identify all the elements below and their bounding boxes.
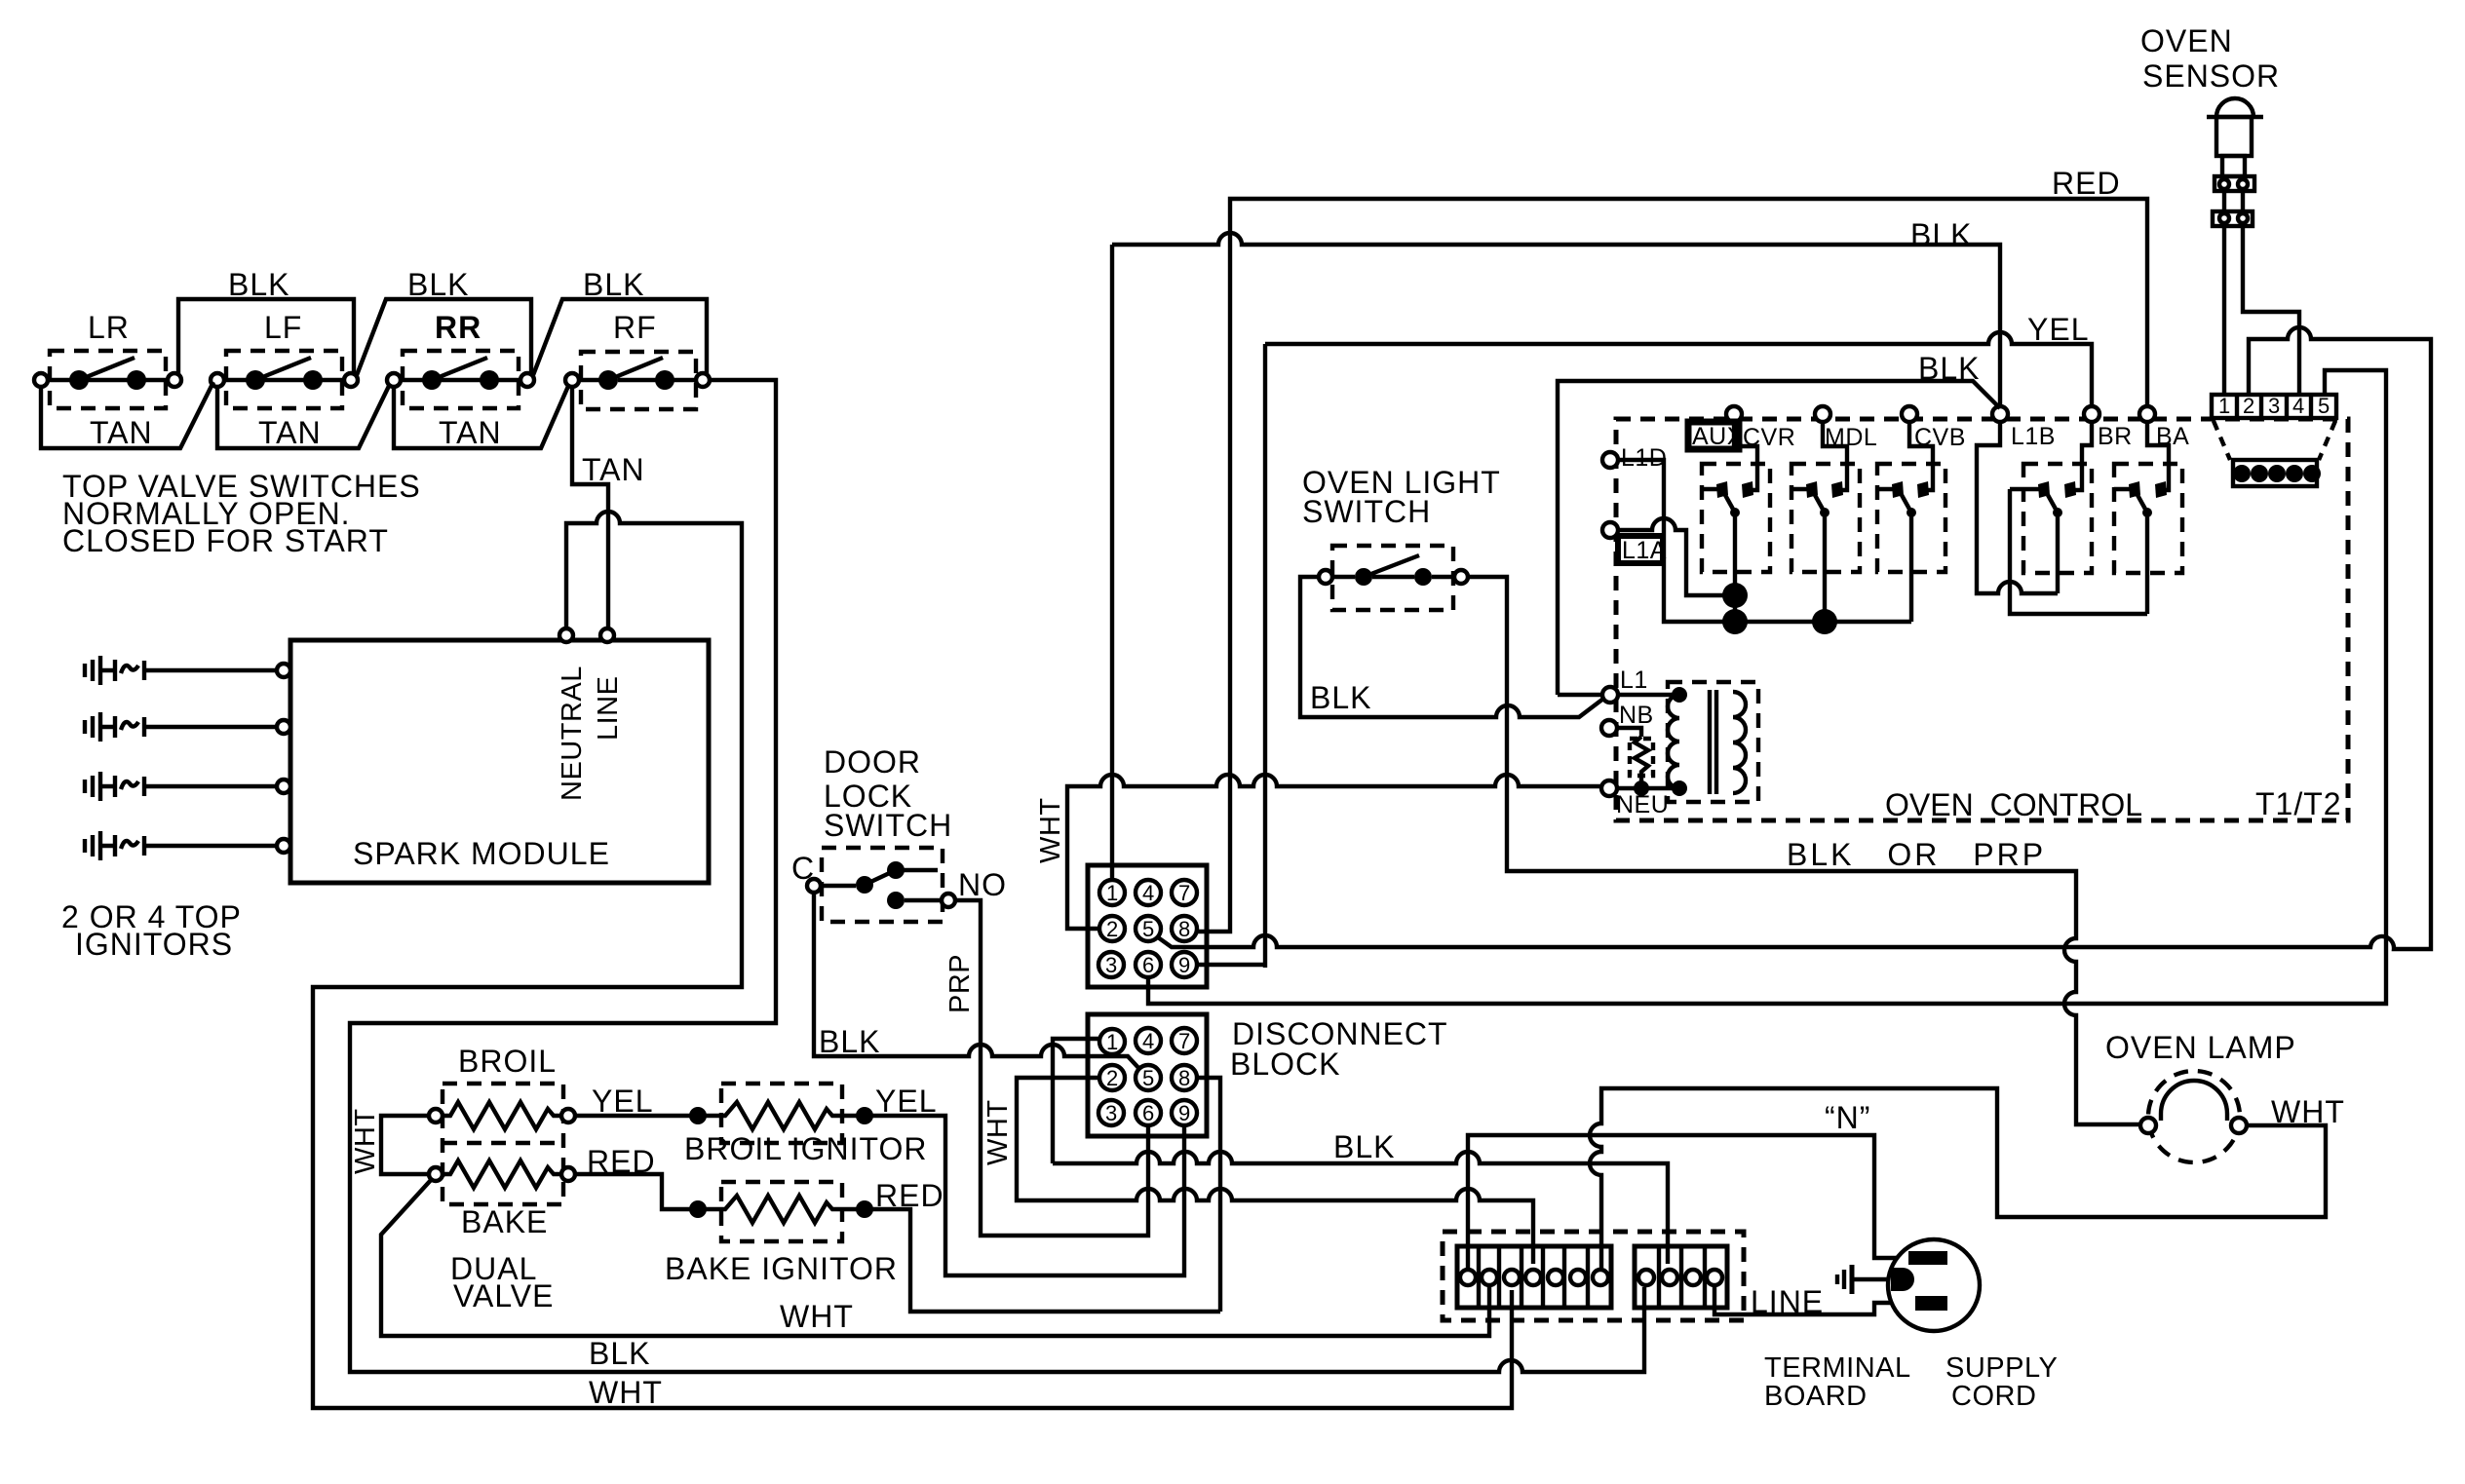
- svg-text:NB: NB: [1619, 702, 1654, 729]
- terminal board dashed box: [1443, 1232, 1744, 1320]
- terminal BA circle: [2139, 406, 2155, 422]
- bake ignitor dashed box: [721, 1182, 842, 1241]
- spark module box: [290, 640, 709, 883]
- svg-text:1: 1: [1106, 1030, 1118, 1054]
- lower block pin 4: [1136, 1028, 1161, 1053]
- wire BLK from door lock C to disconnect pin 5 (humps over PRP and pin1 riser): [814, 893, 1140, 1070]
- svg-text:BLK: BLK: [589, 1336, 650, 1371]
- svg-text:BAKE IGNITOR: BAKE IGNITOR: [665, 1251, 898, 1286]
- sensor connector body (boxes 1-5): [2212, 394, 2336, 418]
- svg-text:SENSOR: SENSOR: [2142, 58, 2280, 94]
- wire BR terminal to relay4 contact: [2075, 422, 2092, 490]
- svg-text:4: 4: [1142, 881, 1154, 905]
- svg-text:RF: RF: [613, 310, 657, 345]
- wire LINE: terminal R4 down and right to supply plug line pin: [1714, 1287, 1915, 1314]
- wire NB to resistor: [1617, 728, 1641, 737]
- svg-text:LF: LF: [264, 310, 302, 345]
- svg-text:L1: L1: [1620, 666, 1648, 694]
- wire BLK#2b oven light left riser up and to L1B riser (diagonal): [1558, 381, 2000, 695]
- svg-text:BLK: BLK: [819, 1024, 880, 1059]
- wire WHT lamp right terminal return to terminal 7 (down, left, up, left, down with bumps over N and BLK runs): [1590, 1088, 2326, 1268]
- svg-text:BROIL: BROIL: [458, 1044, 557, 1079]
- svg-text:YEL: YEL: [592, 1084, 653, 1119]
- lower block pin 1: [1099, 1029, 1125, 1054]
- svg-text:TAN: TAN: [258, 415, 322, 450]
- svg-text:WHT: WHT: [1035, 797, 1066, 863]
- wire relay4 pivot down: [2056, 513, 2060, 593]
- svg-text:WHT: WHT: [589, 1375, 663, 1410]
- ignitor 3: [85, 772, 290, 801]
- transformer secondary coil: [1733, 692, 1746, 793]
- svg-text:YEL: YEL: [875, 1084, 937, 1119]
- wire BLK bridge LR.R to LF.R: [178, 299, 354, 374]
- transformer dashed box: [1668, 682, 1758, 802]
- svg-text:SUPPLY: SUPPLY: [1945, 1352, 2058, 1384]
- svg-text:TAN: TAN: [582, 452, 645, 487]
- svg-text:WHT: WHT: [982, 1099, 1014, 1165]
- svg-text:BLK: BLK: [1910, 217, 1972, 252]
- wire upper pin9 stub to control riser: [1197, 963, 1265, 967]
- svg-text:LR: LR: [88, 310, 130, 345]
- svg-text:4: 4: [1142, 1029, 1154, 1053]
- svg-text:IGNITORS: IGNITORS: [75, 927, 233, 962]
- junction dot primary top: [1672, 687, 1687, 703]
- wire L1D to relay bus: [1618, 460, 1911, 622]
- lower block pin 7: [1172, 1028, 1197, 1053]
- svg-text:2: 2: [1106, 1066, 1118, 1090]
- terminal MDL circle: [1815, 406, 1830, 422]
- lower block pin 3: [1098, 1100, 1124, 1125]
- switch RR (top valve switch, right rear): [387, 310, 534, 408]
- wire WHT valve common to terminal 2 of terminal board: [381, 1179, 1489, 1336]
- relay4 contacts: [2010, 481, 2076, 517]
- wire N: terminal 1 up and right to supply plug neutral: [1468, 1135, 1908, 1268]
- wire BLK bridge RR.R to RF.R (diagonal rise): [533, 299, 707, 375]
- wire relay3 pivot down to bus corner: [1909, 513, 1913, 622]
- svg-text:SWITCH: SWITCH: [824, 808, 952, 843]
- bake valve element (resistor): [429, 1161, 575, 1188]
- wire YEL from main riser corner to BR terminal (hump over L1B riser): [1265, 332, 2092, 406]
- svg-text:L1B: L1B: [2011, 423, 2056, 450]
- relay MDL dashed box: [1791, 464, 1860, 572]
- wire CVR terminal to relay contact: [1734, 422, 1757, 490]
- wire sensor lead 2 to connector box4: [2243, 225, 2299, 395]
- upper block pin 5: [1136, 916, 1161, 941]
- relay AUX/CVR dashed box: [1702, 464, 1770, 572]
- upper block pin 3: [1098, 952, 1124, 977]
- svg-text:BLK: BLK: [1333, 1129, 1395, 1164]
- svg-text:TERMINAL: TERMINAL: [1764, 1352, 1911, 1384]
- svg-text:BR: BR: [2098, 423, 2133, 450]
- oven lamp dashed circle: [2148, 1071, 2240, 1162]
- broil ignitor dashed box: [721, 1084, 842, 1143]
- wire sensor lead 1 to connector box1: [2222, 225, 2226, 395]
- upper block pin 2: [1099, 916, 1125, 941]
- ignitor 2: [85, 712, 290, 742]
- lower block pin 5: [1136, 1065, 1161, 1090]
- relay5 contacts: [2114, 481, 2167, 517]
- wire BLK#2 oven light left terminal to L1 (hump over right-terminal riser, diagonal into L1): [1300, 577, 1603, 717]
- oven control dashed box: [1616, 419, 2348, 820]
- wire L1A to relay1 pivot leg (arc over L1D riser): [1618, 518, 1727, 595]
- junction dot L1A tee: [1722, 583, 1748, 608]
- svg-text:8: 8: [1178, 917, 1190, 941]
- oven sensor plug block 2: [2213, 211, 2253, 226]
- oven sensor plug block 1: [2215, 176, 2254, 191]
- svg-text:WHT: WHT: [780, 1299, 854, 1334]
- terminal L1D circle: [1602, 452, 1618, 468]
- svg-text:BLK: BLK: [228, 267, 289, 302]
- upper block pin 1: [1099, 880, 1125, 905]
- wire lower pin8 drop to RED run: [1197, 1078, 1220, 1312]
- upper block pin 6: [1136, 952, 1161, 977]
- svg-text:TAN: TAN: [439, 415, 502, 450]
- wire BA terminal to relay5 contact: [2147, 422, 2169, 490]
- wire upper pin5 to sensor connector box2 (long WHT run on right): [1158, 327, 2431, 949]
- svg-text:7: 7: [1178, 1029, 1190, 1053]
- terminal L1 circle: [1602, 687, 1618, 703]
- wire L1 to transformer primary: [1618, 693, 1679, 697]
- svg-text:RED: RED: [587, 1144, 656, 1179]
- svg-text:2: 2: [2243, 394, 2254, 418]
- svg-text:3: 3: [2268, 394, 2280, 418]
- broil ignitor element: [689, 1102, 873, 1129]
- svg-text:3: 3: [1105, 953, 1117, 977]
- relay CVB contacts: [1877, 481, 1929, 517]
- relay MDL contacts: [1791, 481, 1843, 517]
- supply cord plug: [1888, 1239, 1980, 1331]
- svg-text:C: C: [791, 851, 815, 886]
- wire YEL broil valve to broil ignitor: [575, 1114, 698, 1118]
- svg-text:1: 1: [1106, 881, 1118, 905]
- svg-text:4: 4: [2292, 394, 2304, 418]
- junction dot primary bottom: [1672, 780, 1687, 796]
- wire MDL terminal to relay contact: [1823, 422, 1847, 490]
- NB resistor zigzag: [1635, 737, 1648, 788]
- svg-text:BLK: BLK: [1310, 680, 1371, 715]
- svg-text:BAKE: BAKE: [461, 1204, 548, 1239]
- sensor connector socket with contacts: [2233, 460, 2321, 486]
- switch RF (top valve switch, right front): [565, 310, 710, 409]
- lower block pin 8: [1172, 1065, 1197, 1090]
- terminal board left block: [1457, 1246, 1611, 1308]
- svg-text:3: 3: [1105, 1101, 1117, 1125]
- junction dot relay1 on bus: [1722, 609, 1748, 634]
- door lock switch: [807, 848, 943, 922]
- svg-text:8: 8: [1178, 1066, 1190, 1090]
- wire RED from BA terminal to upper pin 8: [1197, 199, 2147, 932]
- svg-text:NO: NO: [958, 867, 1007, 902]
- svg-text:BLOCK: BLOCK: [1230, 1046, 1340, 1082]
- terminal L1B circle: [1992, 406, 2008, 422]
- bake ignitor element: [689, 1196, 873, 1223]
- wire BLK center run from pin1 riser to terminal R2 (humps over pin6,pin9,pin8,main risers and N riser): [1053, 1152, 1668, 1264]
- lower block pin 9: [1172, 1100, 1197, 1125]
- wire relay2 pivot down to bus: [1823, 513, 1827, 622]
- wire lower pin2 to terminal t4 (humps over pin6,pin9,pin8,main riser,t1 riser): [1017, 1078, 1533, 1264]
- relay CVB dashed box: [1877, 464, 1945, 572]
- svg-text:YEL: YEL: [2027, 312, 2089, 347]
- ignitor 4: [85, 831, 290, 860]
- wire spark module neutral: module NEUTRAL pin up, over TAN (hump), right, down, left, down, bottom WHT run to terminal 3: [313, 512, 1512, 1408]
- svg-text:CLOSED FOR START: CLOSED FOR START: [62, 523, 389, 558]
- svg-text:BLK: BLK: [1918, 351, 1980, 386]
- svg-text:BLK: BLK: [583, 267, 644, 302]
- wire BLK from RF.R: right, down, left, down, bottom BLK run to terminal board R1 (hump over t3 riser): [350, 380, 1644, 1372]
- broil valve element (resistor): [429, 1102, 575, 1129]
- svg-text:5: 5: [1142, 917, 1154, 941]
- wire upper pin6 to sensor connector box5: [1148, 370, 2386, 1004]
- wire WHT upper pin2 to oven control NEU (humps over three risers and oven light riser): [1067, 775, 1602, 929]
- wire PRP/WHT from NO down to disconnect pin 6: [955, 900, 1148, 1236]
- switch LR (top valve switch, left rear): [34, 310, 181, 408]
- relay L1B/BR dashed box: [2023, 464, 2092, 573]
- wire NEU to transformer primary bottom: [1617, 786, 1679, 790]
- svg-text:“N”: “N”: [1825, 1100, 1870, 1135]
- wire WHT link between broil and bake left terminals: [381, 1116, 429, 1174]
- wire RED bake valve to bake ignitor: [575, 1174, 698, 1209]
- ignitor 1 (top ignitor symbol): [85, 656, 290, 685]
- svg-text:6: 6: [1142, 953, 1154, 977]
- svg-text:VALVE: VALVE: [453, 1278, 554, 1313]
- svg-text:DOOR: DOOR: [824, 744, 921, 780]
- svg-text:5: 5: [1142, 1066, 1154, 1090]
- svg-text:BLK: BLK: [407, 267, 469, 302]
- svg-text:1: 1: [2218, 394, 2230, 418]
- svg-text:BROIL IGNITOR: BROIL IGNITOR: [684, 1131, 927, 1166]
- terminal board right block: [1635, 1246, 1727, 1308]
- spark module NEUTRAL pin circle: [559, 628, 573, 642]
- spark module LINE pin circle: [600, 628, 614, 642]
- lower block pin 6: [1136, 1100, 1161, 1125]
- wire TAN return LF.L to RR.L: [217, 384, 390, 448]
- oven lamp terminals and filament: [2140, 1081, 2247, 1133]
- svg-text:SPARK MODULE: SPARK MODULE: [353, 836, 610, 871]
- sensor link wires: [2224, 191, 2243, 211]
- terminal L1A circle: [1602, 522, 1618, 538]
- transformer core: [1710, 690, 1716, 794]
- svg-text:T1/T2: T1/T2: [2255, 786, 2342, 821]
- wire relay5 pivot down to cross-link: [2145, 513, 2149, 614]
- transformer primary coil: [1668, 695, 1679, 788]
- dual valve divider dashed: [443, 1141, 563, 1145]
- wire TAN RF.L down to spark module LINE pin: [572, 387, 608, 628]
- svg-text:L1A: L1A: [1622, 537, 1667, 564]
- svg-text:RED: RED: [2052, 166, 2121, 201]
- door lock NO circle: [942, 894, 955, 907]
- wire BLK bridge LF.R to RR.R (diagonal rise): [357, 299, 531, 375]
- junction dot NB resistor bottom: [1634, 780, 1649, 796]
- relay AUX/CVR contacts: [1702, 481, 1753, 517]
- svg-text:BLK OR PRP: BLK OR PRP: [1787, 837, 2046, 872]
- junction dot relay2 on bus: [1812, 609, 1837, 634]
- wire relay1 pivot down to bus: [1733, 513, 1737, 622]
- wire TAN return LR.L to LF.L: [41, 382, 213, 448]
- upper connector block box: [1088, 865, 1207, 987]
- wire BLK OR PRP: oven light right terminal down, right, down to oven lamp left (vertical bumps over two runs): [1468, 577, 2140, 1124]
- wire BLK from L1B terminal to upper pin1 (hump over RED riser): [1112, 233, 2000, 406]
- switch LF (top valve switch, left front): [211, 310, 358, 408]
- svg-text:NEUTRAL: NEUTRAL: [557, 666, 588, 801]
- svg-text:PRP: PRP: [944, 954, 976, 1013]
- label L1A boxed: [1618, 536, 1667, 564]
- wire main riser x=1298: YEL corner down to RED/pin8 run, tee at upper pin9: [1263, 344, 1267, 968]
- terminal CVR circle: [1726, 406, 1742, 422]
- svg-text:OVEN LAMP: OVEN LAMP: [2105, 1030, 2296, 1065]
- upper block pin 8: [1172, 916, 1197, 941]
- upper block pin 4: [1136, 880, 1161, 905]
- ground symbol: [1837, 1265, 1891, 1294]
- wire CVB terminal to relay contact: [1909, 422, 1933, 490]
- wire TAN return RR.L to RF.L: [394, 384, 569, 448]
- terminal NEU circle: [1601, 780, 1617, 796]
- lower disconnect block box: [1088, 1014, 1207, 1136]
- NB resistor dashed box: [1630, 739, 1653, 776]
- svg-text:TAN: TAN: [90, 415, 153, 450]
- svg-text:9: 9: [1178, 953, 1190, 977]
- svg-text:5: 5: [2318, 394, 2330, 418]
- svg-text:SWITCH: SWITCH: [1302, 494, 1431, 529]
- svg-text:BOARD: BOARD: [1764, 1381, 1868, 1412]
- terminal CVB circle: [1902, 406, 1917, 422]
- svg-text:7: 7: [1178, 881, 1190, 905]
- sensor connector funnel dashed sides: [2214, 421, 2335, 460]
- upper block pin 9: [1172, 952, 1197, 977]
- svg-text:LINE: LINE: [593, 676, 624, 741]
- svg-text:OVEN: OVEN: [2140, 23, 2233, 58]
- terminal BR circle: [2084, 406, 2099, 422]
- label AUX boxed: [1688, 422, 1744, 450]
- svg-text:RR: RR: [435, 310, 481, 345]
- lower block pin 2: [1099, 1065, 1125, 1090]
- wire upper pin1 riser to BLK line corner: [1110, 245, 1114, 880]
- wire YEL broil ignitor to disconnect pin 9: [865, 1116, 1184, 1275]
- svg-text:9: 9: [1178, 1101, 1190, 1125]
- svg-text:6: 6: [1142, 1101, 1154, 1125]
- svg-text:WHT: WHT: [350, 1108, 381, 1174]
- relay BA dashed box: [2114, 464, 2182, 573]
- wire relay4 left contact riser down and across to relay5 pivot: [2010, 489, 2147, 614]
- svg-text:OVEN CONTROL: OVEN CONTROL: [1885, 787, 2142, 822]
- upper block pin 7: [1172, 880, 1197, 905]
- terminal NB circle: [1601, 720, 1617, 736]
- wire RED bake ignitor to disconnect pin 8 and oven control riser: [865, 1209, 1220, 1312]
- svg-text:2: 2: [1106, 917, 1118, 941]
- svg-text:CORD: CORD: [1951, 1381, 2036, 1412]
- oven sensor bulb: [2207, 98, 2263, 176]
- dual valve dashed box: [443, 1084, 563, 1204]
- oven light switch: [1319, 546, 1468, 610]
- wire L1B terminal to relay4 pivot (hump over left-contact riser): [1977, 422, 2058, 593]
- wire lower pin1 stub and riser down to BLK center run: [1053, 1039, 1099, 1163]
